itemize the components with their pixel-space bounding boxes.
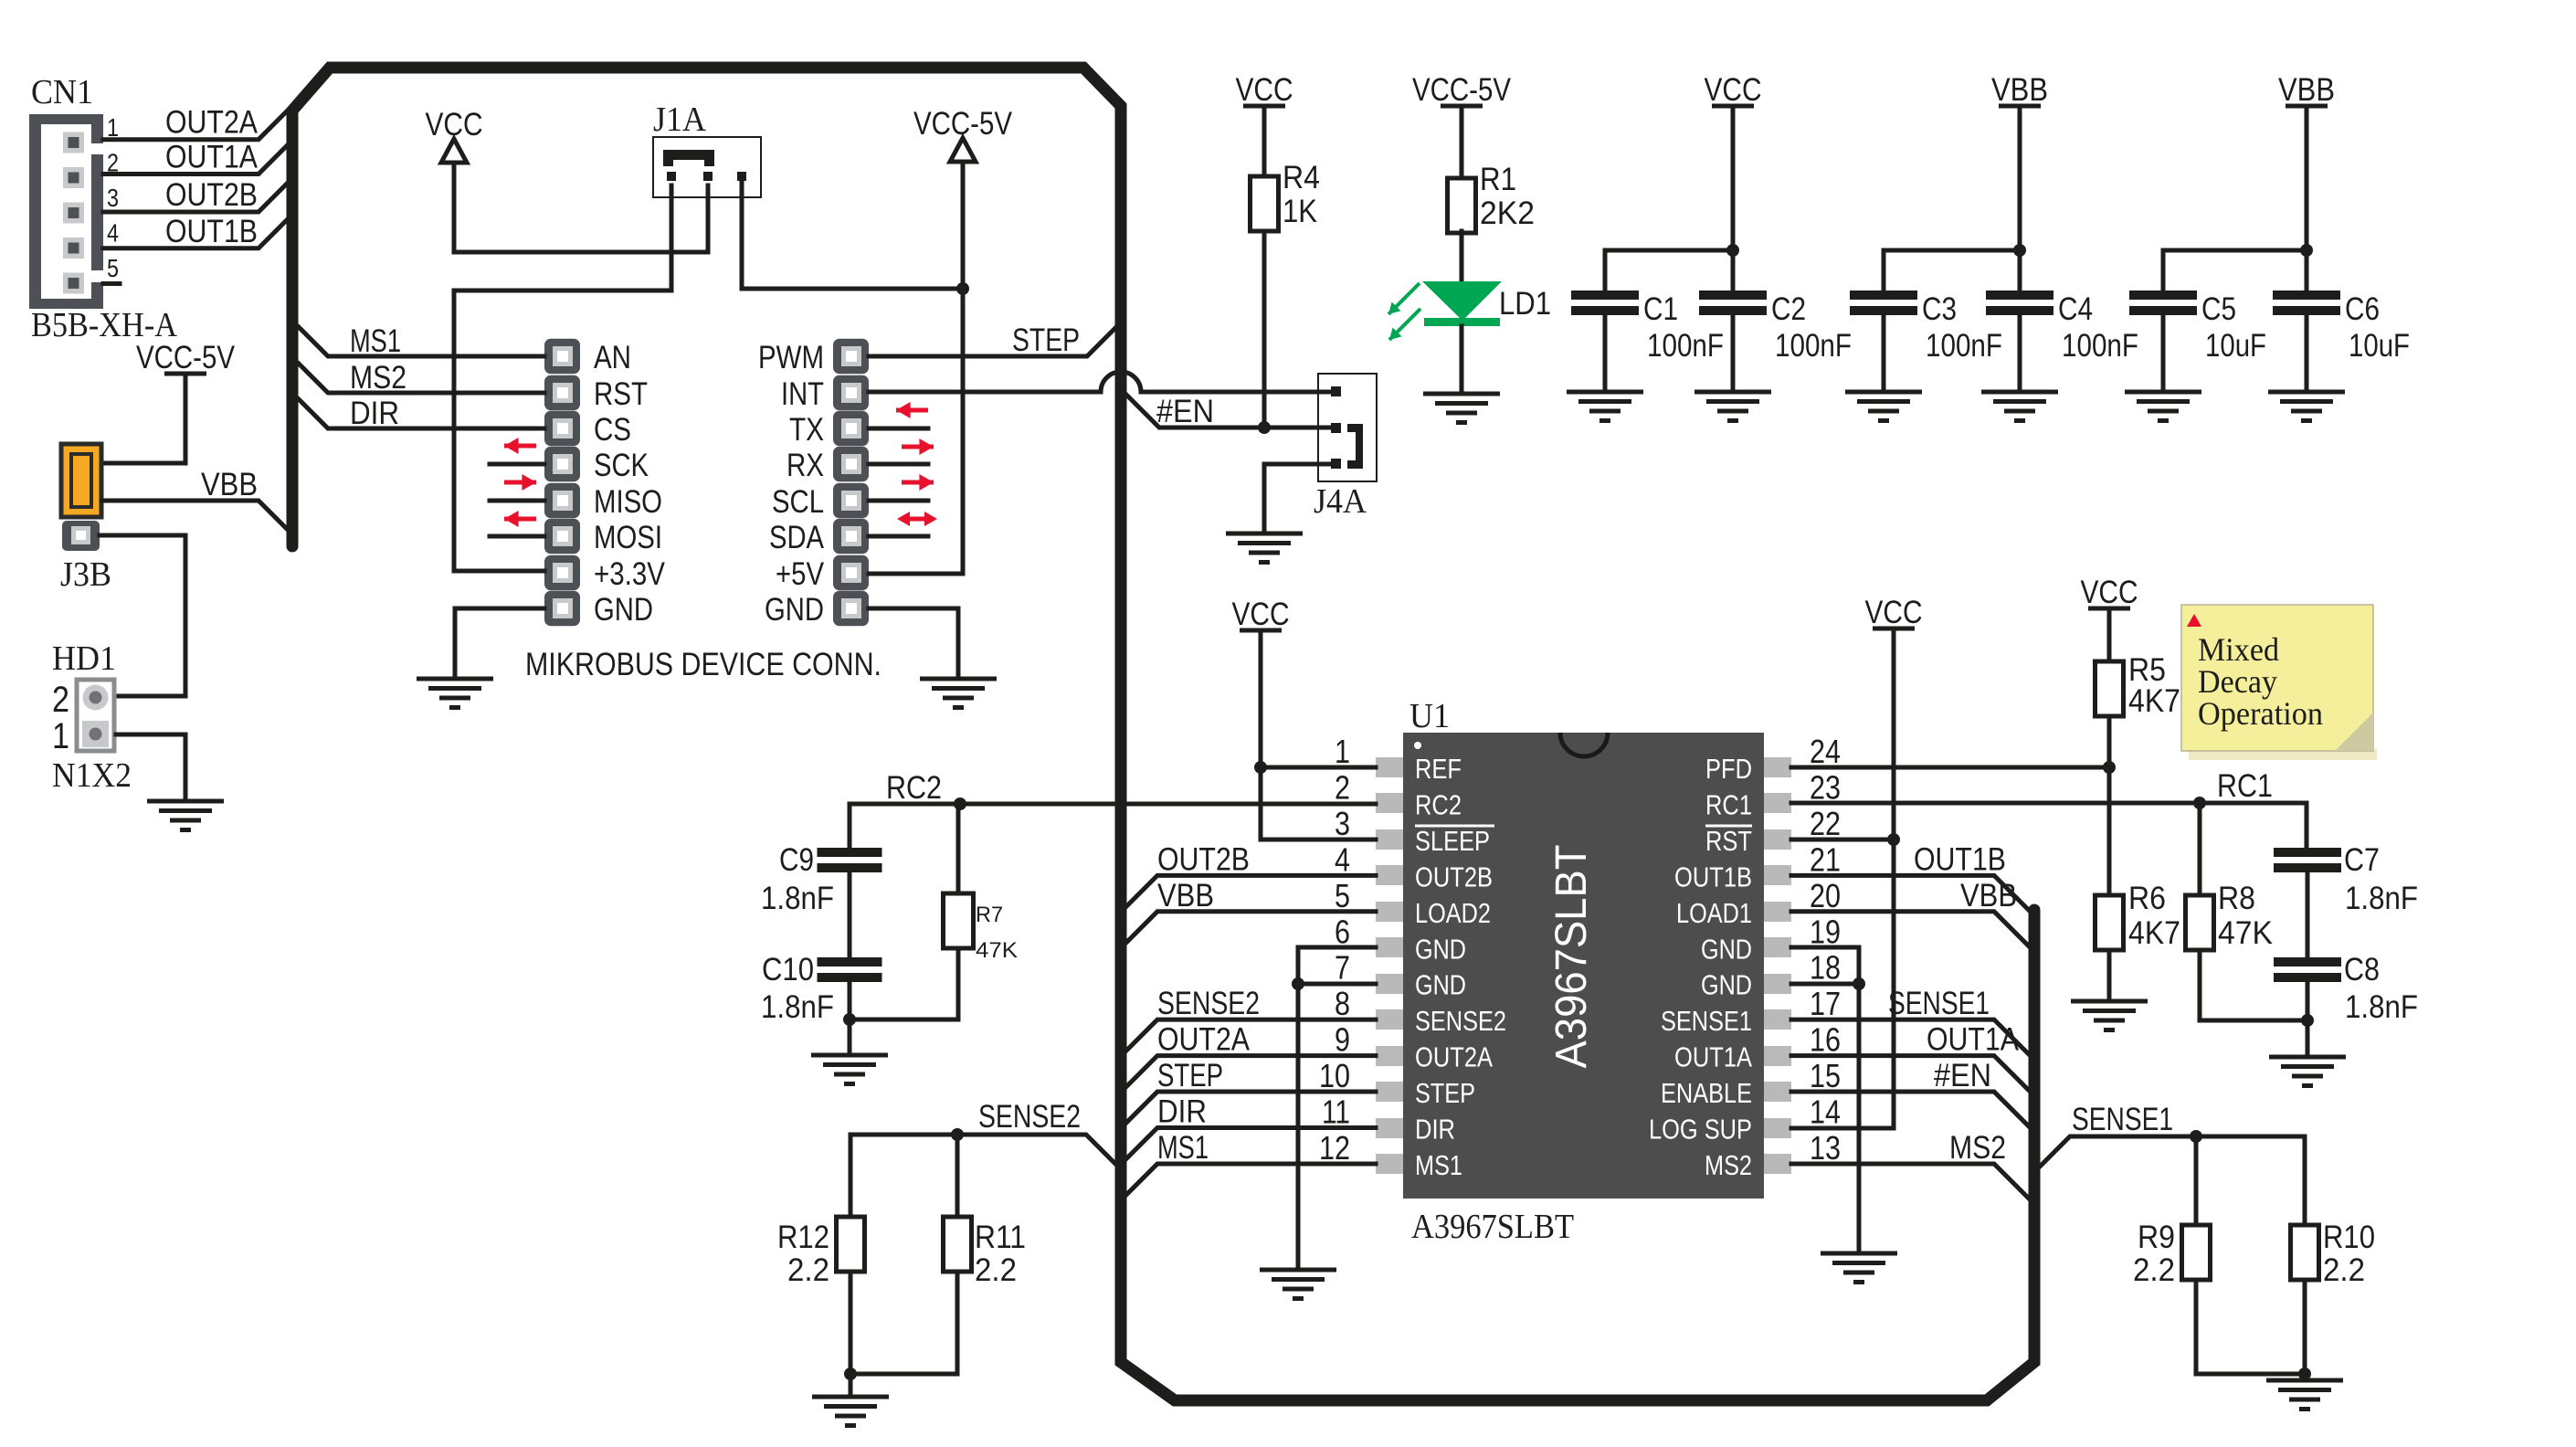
wire C4 bottom lead (2018, 313, 2022, 392)
svg-text:SENSE2: SENSE2 (1415, 1005, 1506, 1037)
svg-text:R8: R8 (2218, 881, 2255, 916)
wire RC1 net (1791, 803, 2307, 848)
wire SCL stub (869, 499, 928, 503)
board outline border (292, 68, 2034, 1400)
svg-text:SENSE1: SENSE1 (1661, 1005, 1752, 1037)
wire SCK stub (490, 462, 544, 467)
resistor R6 (2096, 895, 2124, 950)
svg-text:3: 3 (107, 184, 119, 212)
wire left GND to ground (455, 608, 544, 679)
wire C1 bottom lead (1603, 313, 1608, 392)
svg-text:7: 7 (1335, 949, 1350, 987)
svg-text:10uF: 10uF (2205, 328, 2266, 364)
svg-text:MS1: MS1 (1415, 1149, 1462, 1181)
wire SDA stub (869, 534, 928, 539)
svg-text:OUT1A: OUT1A (1927, 1022, 2020, 1058)
svg-text:1: 1 (1335, 733, 1350, 770)
svg-text:Decay: Decay (2198, 663, 2277, 700)
HD1 pin numbers (52, 680, 69, 756)
wire J3B pin to HD1 pin2 (100, 535, 185, 696)
wire VCC to J1A pin2 (454, 185, 708, 252)
svg-text:GND: GND (1701, 969, 1752, 1001)
svg-text:16: 16 (1810, 1021, 1841, 1059)
wire CN1 OUT1B (103, 220, 287, 248)
capacitor C1 (1571, 290, 1639, 300)
wire REF pin1 (1261, 766, 1376, 770)
svg-text:STEP: STEP (1012, 322, 1080, 358)
svg-text:RC1: RC1 (1705, 788, 1752, 820)
svg-text:8: 8 (1335, 985, 1350, 1022)
wire GND pin7 (1298, 982, 1376, 987)
wire C2 top lead (1731, 250, 1736, 290)
arrow left INT/TX (896, 408, 928, 413)
resistor R4 (1251, 176, 1279, 231)
svg-text:MIKROBUS DEVICE CONN.: MIKROBUS DEVICE CONN. (525, 647, 882, 682)
wire #EN from border to J4A (1126, 395, 1331, 428)
wire INT with hop to J4A (869, 372, 1331, 392)
svg-text:CN1: CN1 (31, 73, 93, 111)
resistor R8 (2186, 895, 2214, 950)
wire GND pin18 (1791, 982, 1859, 987)
junction R10 bottom (2298, 1368, 2311, 1380)
svg-text:10: 10 (1319, 1057, 1350, 1094)
svg-text:47K: 47K (2218, 915, 2273, 951)
wire SENSE1 net (2040, 1136, 2305, 1167)
svg-text:17: 17 (1810, 985, 1841, 1022)
svg-text:VBB: VBB (1157, 878, 1214, 914)
svg-text:C2: C2 (1771, 291, 1806, 327)
svg-text:LD1: LD1 (1499, 286, 1551, 322)
IC pin names left (1415, 753, 1506, 1181)
wire MOSI stub (490, 534, 544, 539)
svg-text:11: 11 (1322, 1093, 1350, 1131)
capacitor C7 (2274, 848, 2341, 857)
capacitor C9 (818, 848, 882, 857)
svg-text:OUT2A: OUT2A (1157, 1022, 1251, 1058)
svg-text:20: 20 (1810, 877, 1841, 914)
svg-text:RC2: RC2 (1415, 788, 1462, 820)
junction C2 (1726, 244, 1739, 257)
svg-text:2.2: 2.2 (975, 1252, 1017, 1288)
svg-text:VCC-5V: VCC-5V (1412, 72, 1512, 108)
svg-text:4: 4 (107, 219, 119, 248)
svg-text:R4: R4 (1283, 160, 1320, 195)
wire to ground (R12) (849, 1374, 853, 1397)
wire OUT2B pin4 from border (1126, 875, 1376, 906)
svg-text:GND: GND (1415, 969, 1466, 1001)
svg-text:VCC: VCC (1236, 72, 1293, 108)
wire STEP pin10 from border (1126, 1092, 1376, 1123)
svg-text:R1: R1 (1480, 162, 1516, 197)
svg-text:1.8nF: 1.8nF (2345, 881, 2418, 916)
wire MS1 pin12 from border (1126, 1164, 1376, 1195)
wire CN1 OUT1A (103, 146, 287, 174)
svg-text:VCC: VCC (1865, 595, 1923, 630)
svg-text:47K: 47K (976, 938, 1018, 963)
connector HD1 (77, 680, 114, 751)
wire MS2 to mikrobus (299, 364, 544, 393)
svg-text:14: 14 (1810, 1093, 1841, 1131)
wire R9/R10 bottoms (2196, 1280, 2305, 1374)
svg-text:N1X2: N1X2 (52, 756, 132, 795)
capacitor C5 (2129, 290, 2197, 300)
wire C5 top lead (2161, 250, 2166, 290)
svg-text:6: 6 (1335, 913, 1350, 950)
power VCC-5V (arrow) (913, 106, 1013, 162)
svg-text:VCC-5V: VCC-5V (136, 340, 236, 375)
svg-text:R10: R10 (2323, 1220, 2375, 1255)
wire PFD to R6 (2107, 767, 2112, 895)
svg-text:C10: C10 (762, 952, 814, 988)
wire C9 to C10 (848, 871, 852, 957)
power VCC (arrow, mikrobus) (426, 107, 483, 163)
ground (C1) (1567, 392, 1643, 421)
wire R11 top (955, 1135, 960, 1217)
svg-text:GND: GND (1415, 933, 1466, 965)
wire R4 to #EN (1262, 231, 1267, 428)
ground (R12/R11) (812, 1397, 889, 1426)
resistor R5 (2096, 661, 2124, 716)
junction SENSE1/R9 (2190, 1130, 2202, 1143)
junction REF (1254, 761, 1267, 774)
svg-text:OUT1B: OUT1B (165, 214, 258, 249)
svg-text:C9: C9 (779, 842, 814, 878)
ground (mikrobus right) (920, 679, 997, 708)
wire C5 bottom lead (2161, 313, 2166, 392)
wire LED to ground (1460, 326, 1464, 394)
svg-text:RST: RST (594, 376, 648, 412)
wire TX stub (869, 427, 928, 431)
header mikrobus right (833, 339, 869, 627)
wire C7 to C8 (2306, 871, 2310, 957)
wire MS2 pin13 to border (1791, 1164, 2029, 1199)
wire GND pin19 (1791, 947, 1859, 984)
ground (HD1) (147, 801, 224, 830)
wire RX stub (869, 462, 928, 467)
svg-text:VBB: VBB (1991, 72, 2048, 108)
resistor R7 (944, 893, 974, 948)
svg-text:1.8nF: 1.8nF (2345, 989, 2418, 1025)
svg-text:1: 1 (52, 716, 69, 756)
wire HD1 pin1 to ground (116, 734, 185, 801)
svg-text:4: 4 (1335, 840, 1350, 878)
svg-text:4K7: 4K7 (2128, 683, 2180, 719)
svg-text:10uF: 10uF (2349, 328, 2410, 364)
arrow left MOSI (504, 517, 536, 522)
ground (U1 right) (1821, 1253, 1897, 1283)
ground (R6) (2071, 1001, 2148, 1030)
resistor R1 (1448, 178, 1476, 233)
svg-text:R12: R12 (777, 1220, 829, 1255)
svg-text:VBB: VBB (1960, 878, 2017, 914)
svg-text:C7: C7 (2344, 842, 2380, 878)
ground (mikrobus left) (417, 679, 493, 708)
IC pin stubs right (1764, 757, 1791, 1174)
svg-text:Operation: Operation (2198, 695, 2323, 732)
ground (C2) (1694, 392, 1771, 421)
capacitor C4 (1986, 290, 2053, 300)
wire J1A pin3 to VCC-5V rail (742, 181, 963, 289)
J3B lower pin (62, 521, 100, 551)
wire VBB pin5 from border (1126, 912, 1376, 943)
wire R5 to PFD (2107, 716, 2112, 767)
svg-text:GND: GND (594, 592, 653, 628)
svg-text:MS2: MS2 (1705, 1149, 1752, 1181)
wire VCC to R4 (1262, 106, 1267, 176)
svg-text:Mixed: Mixed (2198, 631, 2279, 668)
svg-text:RX: RX (787, 448, 824, 483)
junction RC1 (2193, 797, 2206, 809)
wire OUT1A pin16 to border (1791, 1056, 2029, 1091)
svg-text:DIR: DIR (1415, 1114, 1455, 1146)
svg-text:LOAD1: LOAD1 (1676, 897, 1752, 929)
jumper J1A (653, 137, 761, 197)
svg-text:LOG SUP: LOG SUP (1649, 1114, 1752, 1146)
wire C3 bottom lead (1882, 313, 1886, 392)
svg-text:OUT1A: OUT1A (165, 140, 259, 175)
svg-text:100nF: 100nF (1647, 328, 1724, 364)
svg-text:OUT2B: OUT2B (1157, 841, 1250, 877)
wire MISO stub (490, 499, 544, 503)
svg-text:22: 22 (1810, 805, 1841, 842)
svg-text:R6: R6 (2128, 881, 2166, 916)
svg-text:+5V: +5V (776, 556, 825, 592)
svg-text:REF: REF (1415, 753, 1462, 785)
svg-text:OUT2B: OUT2B (165, 177, 258, 213)
svg-text:#EN: #EN (1934, 1058, 1991, 1093)
wire VCC down to +3.3V (452, 164, 457, 252)
wire VBB pin20 to border (1791, 912, 2029, 946)
wire J1A pin1 to +3.3V rail (454, 185, 671, 290)
svg-text:C4: C4 (2058, 291, 2093, 327)
wire R1 to LED (1460, 231, 1464, 283)
wire R8 top (2198, 803, 2202, 895)
svg-text:OUT2B: OUT2B (1415, 861, 1493, 892)
ground (C3) (1845, 392, 1922, 421)
mikrobus right pin labels (758, 340, 825, 628)
ground (C6) (2268, 392, 2345, 421)
svg-text:2: 2 (1335, 768, 1350, 806)
svg-text:STEP: STEP (1157, 1058, 1223, 1093)
junction C10/R7 (843, 1013, 856, 1026)
svg-text:24: 24 (1810, 733, 1841, 770)
svg-text:SDA: SDA (769, 520, 825, 555)
svg-text:MISO: MISO (594, 484, 662, 520)
junction RST (1887, 833, 1900, 846)
capacitor C8 (2274, 957, 2341, 966)
wire C10 to ground junction (848, 980, 852, 1019)
svg-text:2.2: 2.2 (787, 1252, 829, 1288)
wire OUT1B pin21 to border (1791, 875, 2029, 910)
junction #EN / R4 (1258, 421, 1271, 434)
wire R6 to ground (2107, 950, 2112, 1001)
svg-text:MS2: MS2 (350, 360, 406, 396)
wire PFD pin24 (1791, 766, 2109, 770)
svg-text:#EN: #EN (1156, 394, 1214, 429)
wire VCC-5V to R1 (1460, 106, 1464, 178)
svg-text:A3967SLBT: A3967SLBT (1411, 1208, 1574, 1246)
IC pin numbers right 24-13 (1810, 733, 1841, 1167)
wire RC2 net (850, 802, 1376, 807)
svg-text:2: 2 (52, 680, 69, 720)
svg-text:ENABLE: ENABLE (1661, 1077, 1752, 1109)
svg-text:4K7: 4K7 (2128, 915, 2180, 951)
wire right GND to ground (869, 608, 958, 679)
wire R12 top (849, 1135, 853, 1217)
wire STEP (PWM to border) (869, 327, 1116, 356)
arrow right RX/SCL (902, 481, 934, 485)
svg-text:AN: AN (594, 340, 631, 375)
svg-text:C5: C5 (2201, 291, 2236, 327)
svg-text:VCC: VCC (2081, 575, 2138, 610)
svg-text:+3.3V: +3.3V (594, 556, 666, 592)
wire C2 bottom lead (1731, 313, 1736, 392)
wire to ground (R10) (2303, 1374, 2307, 1380)
svg-text:U1: U1 (1409, 697, 1450, 735)
svg-text:VCC: VCC (1705, 72, 1762, 108)
wire R7 bottom to junction (850, 948, 958, 1019)
svg-text:DIR: DIR (350, 396, 399, 431)
svg-text:PWM: PWM (758, 340, 824, 375)
wire junction to ground (848, 1019, 852, 1055)
ground (C8/R8) (2269, 1057, 2346, 1086)
svg-text:MS1: MS1 (1157, 1130, 1209, 1166)
svg-text:C3: C3 (1922, 291, 1957, 327)
wire CN1 OUT2B (103, 184, 287, 212)
wire GND to ground (left) (1296, 984, 1301, 1270)
IC pin numbers left 1-12 (1319, 733, 1350, 1167)
capacitor C2 (1699, 290, 1767, 300)
wire CN1 OUT2A (103, 111, 287, 140)
wire C8 to junction (2306, 980, 2310, 1020)
svg-text:OUT2A: OUT2A (1415, 1041, 1493, 1073)
arrow right MISO (504, 481, 536, 485)
IC pin names right (1649, 753, 1752, 1181)
svg-text:5: 5 (107, 254, 119, 282)
wire C4 top lead (2018, 250, 2022, 290)
svg-text:LOAD2: LOAD2 (1415, 897, 1491, 929)
CN1 pin numbers 1-5 (107, 113, 119, 282)
svg-text:SENSE1: SENSE1 (2072, 1102, 2173, 1137)
wire VCC to RST and LOG SUP (1791, 628, 1894, 1128)
wire C1 top lead (1603, 250, 1608, 290)
wire C3 top lead (1882, 250, 1886, 290)
junction R12 bottom (844, 1368, 857, 1380)
svg-text:RC1: RC1 (2217, 768, 2273, 804)
svg-text:21: 21 (1810, 840, 1841, 878)
svg-text:GND: GND (1701, 933, 1752, 965)
IC pin stubs left (1376, 757, 1403, 1174)
connector J4A (1318, 374, 1377, 481)
wire GND to ground (right) (1857, 984, 1862, 1253)
wire RC2 to C9 (848, 804, 852, 848)
svg-text:13: 13 (1810, 1129, 1841, 1167)
wire R7 top (956, 804, 961, 893)
wire SENSE2 pin8 from border (1126, 1019, 1376, 1051)
wire RST pin22 (1791, 838, 1894, 842)
svg-text:19: 19 (1810, 913, 1841, 950)
svg-text:J4A: J4A (1314, 482, 1367, 521)
svg-text:PFD: PFD (1705, 753, 1752, 785)
svg-text:2.2: 2.2 (2133, 1252, 2175, 1288)
power VCC-5V (left) (136, 340, 236, 375)
wire R12/R11 bottoms (850, 1272, 957, 1374)
resistor R12 (837, 1217, 865, 1272)
svg-text:15: 15 (1810, 1057, 1841, 1094)
junction C8/R8 (2301, 1014, 2314, 1027)
svg-text:J1A: J1A (653, 100, 707, 139)
LED emission arrows (1388, 283, 1420, 340)
arrow right TX/RX (902, 445, 934, 449)
svg-text:VBB: VBB (2278, 72, 2335, 108)
junction C6 (2300, 244, 2313, 257)
ground (J4A) (1226, 533, 1303, 563)
wire VCC to REF and SLEEP (1261, 630, 1376, 840)
svg-text:TX: TX (789, 412, 824, 448)
svg-text:18: 18 (1810, 949, 1841, 987)
jumper J3B (orange) (61, 444, 101, 517)
wire SENSE2 net (850, 1135, 1115, 1164)
svg-text:SCK: SCK (594, 448, 649, 483)
arrow both SCL/SDA (897, 512, 937, 526)
wire VBB to C4 (2018, 106, 2022, 250)
junction GND7 (1292, 977, 1304, 990)
svg-text:C8: C8 (2344, 952, 2380, 988)
svg-text:RC2: RC2 (886, 770, 942, 806)
mikrobus left pin labels (594, 340, 666, 628)
wire DIR to mikrobus (299, 399, 544, 428)
svg-text:C1: C1 (1643, 291, 1678, 327)
LED LD1 (1422, 281, 1502, 326)
wire VCC to C2 (1731, 106, 1736, 250)
svg-text:R9: R9 (2138, 1220, 2175, 1255)
wire VBB to border (101, 501, 290, 533)
svg-text:OUT1B: OUT1B (1914, 841, 2006, 877)
wire junction to ground (C8) (2306, 1020, 2310, 1057)
wire R9 top (2194, 1136, 2199, 1225)
wire C6 bottom lead (2305, 313, 2309, 392)
svg-text:2.2: 2.2 (2323, 1252, 2365, 1288)
svg-text:1K: 1K (1283, 194, 1317, 229)
wire C1 to C2 (1605, 248, 1733, 253)
svg-text:A3967SLBT: A3967SLBT (1547, 845, 1596, 1069)
wire SENSE1 pin17 to border (1791, 1019, 2029, 1054)
svg-text:CS: CS (594, 412, 631, 448)
svg-text:SENSE2: SENSE2 (978, 1099, 1081, 1135)
wire J4A pin3 to ground (1264, 464, 1331, 533)
connector CN1 (29, 73, 104, 309)
junction VCC-5V / J1A (956, 282, 969, 295)
svg-text:DIR: DIR (1157, 1094, 1207, 1130)
junction GND18 (1853, 977, 1865, 990)
wire R10 top (2303, 1136, 2307, 1225)
svg-text:GND: GND (765, 592, 824, 628)
IC U1 body A3967SLBT (1403, 733, 1764, 1199)
svg-text:VCC: VCC (1232, 597, 1290, 632)
svg-text:SENSE2: SENSE2 (1157, 986, 1260, 1021)
ground (R9/R10) (2266, 1380, 2343, 1410)
wire OUT2A pin9 from border (1126, 1056, 1376, 1087)
wire C3 to C4 (1884, 248, 2020, 253)
wire VBB to C6 (2305, 106, 2309, 250)
wire VCC-5V vertical (869, 164, 963, 574)
resistor R9 (2182, 1225, 2211, 1280)
svg-text:2K2: 2K2 (1480, 195, 1535, 231)
svg-text:RST: RST (1705, 825, 1752, 857)
header mikrobus left (544, 339, 580, 627)
svg-text:R7: R7 (976, 903, 1003, 927)
junction RC2 (954, 797, 966, 810)
